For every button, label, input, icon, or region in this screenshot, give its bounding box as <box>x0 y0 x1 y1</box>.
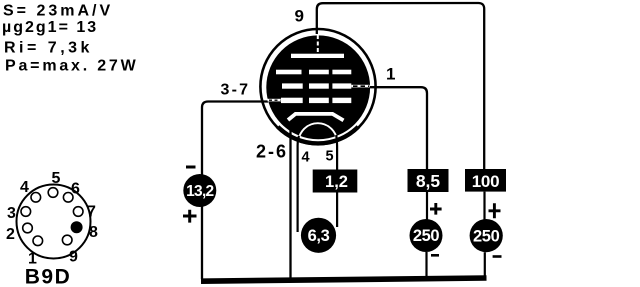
svg-text:1: 1 <box>386 65 395 84</box>
grid g2 lead white <box>351 85 369 88</box>
wire pin4 <box>298 136 299 232</box>
grid g3 row <box>276 70 351 75</box>
wire pin5 <box>335 135 338 227</box>
battery circle 250 right <box>470 219 503 252</box>
wire pin9 top to 100 branch <box>317 3 484 170</box>
svg-text:2: 2 <box>6 226 15 243</box>
grid g1 lead white <box>268 99 282 102</box>
grid g1 row <box>281 98 351 103</box>
svg-text:Ri= 7,3k: Ri= 7,3k <box>4 40 93 57</box>
envelope bottom thick arc <box>278 127 358 144</box>
wire 250 left to bus <box>425 252 427 277</box>
meter circle 6,3 <box>301 218 336 253</box>
battery circle 250 left <box>410 219 443 252</box>
base pin 7 <box>73 207 83 217</box>
wire pin3-7 left down <box>202 102 268 280</box>
box 100 <box>465 169 506 192</box>
svg-text:6,3: 6,3 <box>308 227 330 245</box>
svg-text:3-7: 3-7 <box>221 82 251 99</box>
svg-text:B9D: B9D <box>25 266 72 287</box>
svg-text:100: 100 <box>472 172 499 191</box>
base pin 3 <box>21 207 31 217</box>
box 1,2 <box>313 170 358 193</box>
tube disc <box>266 35 370 139</box>
svg-text:7: 7 <box>87 204 96 221</box>
tube envelope U1 <box>260 29 375 144</box>
svg-text:3: 3 <box>7 205 16 222</box>
svg-text:µg2g1= 13: µg2g1= 13 <box>2 19 98 36</box>
base pin 2 <box>23 223 33 233</box>
svg-text:250: 250 <box>473 227 500 245</box>
wire pin2-6 cathode down <box>289 115 291 281</box>
svg-text:4: 4 <box>20 179 29 196</box>
plus sign at 13,2 <box>183 210 197 223</box>
box 8,5 <box>408 169 449 192</box>
svg-text:Pa=max. 27W: Pa=max. 27W <box>5 58 139 75</box>
svg-text:5: 5 <box>326 149 334 165</box>
base pin 8 filled <box>71 221 83 233</box>
wire box8,5 to 250 <box>426 192 428 220</box>
plus sign at 250 left <box>430 203 442 215</box>
meter circle 13,2 <box>183 174 216 207</box>
base pin 5 <box>48 188 58 198</box>
svg-text:8,5: 8,5 <box>416 171 441 191</box>
svg-text:5: 5 <box>52 170 61 187</box>
minus sign at 13,2 <box>186 166 196 169</box>
anode plate <box>291 54 344 58</box>
ground bus <box>201 278 487 281</box>
base pin 4 <box>31 193 41 203</box>
svg-text:1,2: 1,2 <box>325 173 348 191</box>
svg-text:8: 8 <box>89 224 98 241</box>
svg-text:2-6: 2-6 <box>256 142 288 162</box>
svg-text:9: 9 <box>69 249 78 266</box>
base pin 6 <box>63 193 73 203</box>
svg-text:250: 250 <box>413 227 440 245</box>
anode lead dashed <box>317 35 319 54</box>
svg-text:S= 23mA/V: S= 23mA/V <box>3 3 113 20</box>
wire box100 to 250 <box>483 192 485 220</box>
heater circle arc <box>299 123 338 162</box>
minus sign at 250 right <box>493 255 502 258</box>
base pin 9 <box>62 235 72 245</box>
minus sign at 250 left <box>431 254 439 257</box>
cathode <box>288 114 344 121</box>
svg-text:6: 6 <box>71 181 80 198</box>
plus sign at 250 right <box>489 203 501 218</box>
base pin 1 <box>33 236 43 246</box>
svg-text:4: 4 <box>302 150 310 166</box>
wire 250 right to bus <box>484 252 486 277</box>
wire pin1 right to 8,5 branch <box>370 87 427 169</box>
svg-text:13,2: 13,2 <box>186 183 213 200</box>
grid g2 row <box>282 83 351 88</box>
svg-text:9: 9 <box>295 7 304 26</box>
base diagram B9D circle <box>17 185 91 259</box>
